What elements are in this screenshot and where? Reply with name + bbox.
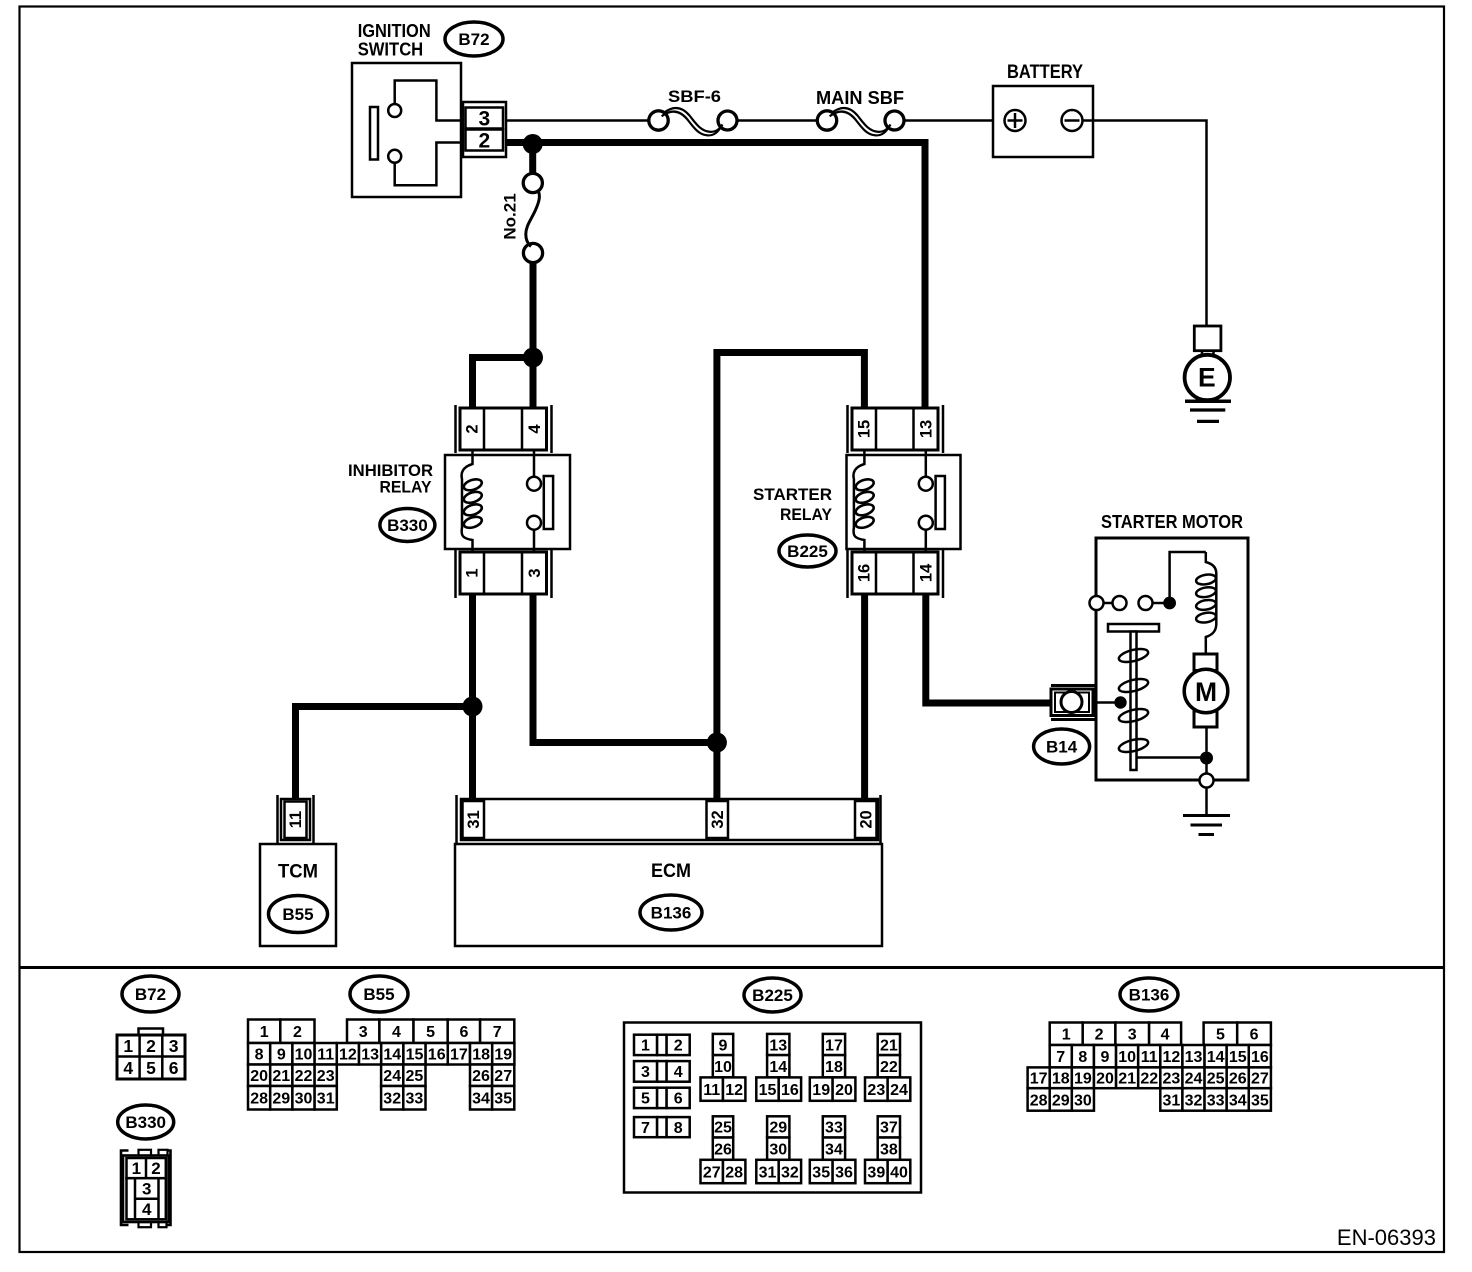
svg-text:1: 1	[132, 1159, 141, 1178]
svg-text:12: 12	[725, 1082, 743, 1099]
svg-text:6: 6	[459, 1024, 468, 1041]
svg-text:26: 26	[714, 1141, 732, 1158]
svg-text:35: 35	[1251, 1092, 1269, 1109]
svg-text:14: 14	[383, 1047, 401, 1064]
svg-text:6: 6	[169, 1058, 179, 1078]
svg-text:5: 5	[641, 1091, 650, 1108]
svg-text:20: 20	[1096, 1071, 1114, 1088]
svg-text:B72: B72	[135, 985, 166, 1004]
svg-text:16: 16	[1251, 1049, 1269, 1066]
svg-text:13: 13	[769, 1037, 787, 1054]
svg-text:15: 15	[406, 1047, 424, 1064]
svg-text:B72: B72	[458, 30, 489, 49]
svg-text:21: 21	[880, 1037, 898, 1054]
svg-text:RELAY: RELAY	[380, 479, 432, 497]
svg-text:STARTER: STARTER	[753, 485, 832, 504]
svg-text:1: 1	[1062, 1027, 1071, 1044]
svg-text:4: 4	[1161, 1027, 1170, 1044]
svg-text:2: 2	[293, 1024, 302, 1041]
svg-text:34: 34	[472, 1091, 490, 1108]
svg-text:30: 30	[1074, 1092, 1092, 1109]
svg-text:2: 2	[146, 1036, 156, 1056]
svg-text:3: 3	[478, 108, 490, 131]
svg-text:38: 38	[880, 1141, 898, 1158]
svg-text:B136: B136	[1129, 986, 1170, 1005]
svg-text:RELAY: RELAY	[780, 506, 832, 524]
svg-text:E: E	[1198, 363, 1216, 393]
svg-text:31: 31	[759, 1164, 777, 1181]
svg-text:12: 12	[339, 1047, 357, 1064]
svg-text:19: 19	[494, 1047, 512, 1064]
svg-text:29: 29	[1052, 1092, 1070, 1109]
svg-text:20: 20	[250, 1068, 268, 1085]
svg-text:3: 3	[526, 568, 544, 577]
svg-text:6: 6	[1250, 1027, 1259, 1044]
svg-text:27: 27	[494, 1068, 512, 1085]
svg-text:B14: B14	[1046, 738, 1078, 757]
svg-text:34: 34	[1229, 1092, 1247, 1109]
svg-text:No.21: No.21	[501, 193, 520, 239]
svg-text:23: 23	[317, 1068, 335, 1085]
svg-text:11: 11	[1141, 1049, 1158, 1066]
svg-text:14: 14	[1207, 1049, 1225, 1066]
svg-text:5: 5	[426, 1024, 435, 1041]
svg-text:MAIN SBF: MAIN SBF	[816, 88, 904, 108]
svg-text:5: 5	[1216, 1027, 1225, 1044]
svg-text:B330: B330	[125, 1113, 166, 1132]
svg-text:40: 40	[890, 1164, 908, 1181]
svg-text:B55: B55	[363, 985, 394, 1004]
svg-text:5: 5	[146, 1058, 156, 1078]
svg-text:25: 25	[714, 1120, 732, 1137]
svg-text:20: 20	[857, 810, 875, 828]
svg-text:35: 35	[812, 1164, 830, 1181]
svg-text:2: 2	[464, 424, 482, 433]
svg-text:27: 27	[1251, 1071, 1269, 1088]
svg-text:34: 34	[825, 1141, 843, 1158]
svg-text:B225: B225	[752, 986, 793, 1005]
svg-text:7: 7	[493, 1024, 502, 1041]
svg-text:INHIBITOR: INHIBITOR	[348, 462, 433, 480]
svg-text:11: 11	[317, 1047, 334, 1064]
svg-text:8: 8	[674, 1120, 683, 1137]
svg-text:11: 11	[287, 811, 305, 828]
svg-text:33: 33	[1207, 1092, 1225, 1109]
svg-text:25: 25	[1207, 1071, 1225, 1088]
svg-text:4: 4	[142, 1200, 152, 1219]
svg-text:4: 4	[526, 424, 544, 434]
svg-text:2: 2	[674, 1038, 683, 1055]
svg-text:13: 13	[1185, 1049, 1203, 1066]
svg-text:39: 39	[867, 1164, 885, 1181]
svg-text:26: 26	[1229, 1071, 1247, 1088]
svg-text:1: 1	[641, 1038, 650, 1055]
svg-text:B136: B136	[651, 904, 692, 923]
svg-text:30: 30	[295, 1091, 313, 1108]
svg-text:TCM: TCM	[278, 862, 318, 883]
svg-text:4: 4	[392, 1024, 401, 1041]
svg-text:9: 9	[719, 1037, 728, 1054]
svg-text:33: 33	[406, 1091, 424, 1108]
svg-text:17: 17	[450, 1047, 468, 1064]
svg-text:18: 18	[1052, 1071, 1070, 1088]
svg-text:29: 29	[769, 1120, 787, 1137]
svg-text:28: 28	[250, 1091, 268, 1108]
svg-text:1: 1	[123, 1036, 133, 1056]
svg-text:22: 22	[880, 1059, 898, 1076]
svg-text:9: 9	[1101, 1049, 1110, 1066]
svg-text:23: 23	[867, 1082, 885, 1099]
svg-text:IGNITION: IGNITION	[358, 21, 431, 41]
svg-text:1: 1	[464, 568, 482, 577]
svg-text:22: 22	[295, 1068, 313, 1085]
svg-text:11: 11	[703, 1082, 720, 1099]
svg-text:B330: B330	[387, 516, 428, 535]
svg-text:26: 26	[472, 1068, 490, 1085]
svg-text:37: 37	[880, 1120, 898, 1137]
svg-text:4: 4	[123, 1058, 133, 1078]
svg-text:3: 3	[169, 1036, 179, 1056]
svg-text:23: 23	[1162, 1071, 1180, 1088]
svg-text:16: 16	[781, 1082, 799, 1099]
svg-text:7: 7	[641, 1120, 650, 1137]
svg-text:21: 21	[1118, 1071, 1136, 1088]
svg-text:15: 15	[759, 1082, 777, 1099]
svg-text:15: 15	[856, 420, 874, 438]
svg-text:14: 14	[917, 563, 935, 582]
svg-text:19: 19	[812, 1082, 830, 1099]
svg-text:19: 19	[1074, 1071, 1092, 1088]
svg-text:32: 32	[781, 1164, 799, 1181]
svg-text:27: 27	[703, 1164, 721, 1181]
svg-text:SWITCH: SWITCH	[358, 40, 424, 60]
svg-text:13: 13	[361, 1047, 379, 1064]
svg-text:10: 10	[1118, 1049, 1136, 1066]
svg-text:16: 16	[856, 564, 874, 582]
svg-text:15: 15	[1229, 1049, 1247, 1066]
svg-text:31: 31	[465, 810, 483, 828]
svg-text:B55: B55	[282, 905, 313, 924]
svg-text:9: 9	[277, 1047, 286, 1064]
svg-text:31: 31	[317, 1091, 335, 1108]
svg-text:17: 17	[1030, 1071, 1048, 1088]
svg-text:3: 3	[142, 1180, 151, 1199]
svg-text:10: 10	[295, 1047, 313, 1064]
svg-text:32: 32	[383, 1091, 401, 1108]
svg-text:1: 1	[260, 1024, 269, 1041]
svg-text:SBF-6: SBF-6	[668, 88, 721, 106]
svg-text:3: 3	[641, 1064, 650, 1081]
svg-text:4: 4	[674, 1064, 683, 1081]
svg-text:18: 18	[825, 1059, 843, 1076]
svg-text:2: 2	[1095, 1027, 1104, 1044]
svg-text:20: 20	[835, 1082, 853, 1099]
svg-text:7: 7	[1056, 1049, 1065, 1066]
svg-text:32: 32	[709, 810, 727, 828]
svg-text:12: 12	[1162, 1049, 1180, 1066]
svg-text:2: 2	[478, 130, 490, 153]
svg-text:10: 10	[714, 1059, 732, 1076]
svg-text:B225: B225	[787, 542, 828, 561]
svg-text:24: 24	[890, 1082, 908, 1099]
svg-text:21: 21	[272, 1068, 290, 1085]
svg-text:30: 30	[769, 1141, 787, 1158]
svg-text:3: 3	[1128, 1027, 1137, 1044]
svg-text:28: 28	[725, 1164, 743, 1181]
svg-text:ECM: ECM	[651, 861, 691, 882]
svg-text:16: 16	[428, 1047, 446, 1064]
svg-text:17: 17	[825, 1037, 843, 1054]
svg-text:3: 3	[359, 1024, 368, 1041]
svg-text:32: 32	[1185, 1092, 1203, 1109]
svg-text:M: M	[1195, 677, 1217, 707]
svg-text:22: 22	[1140, 1071, 1158, 1088]
svg-text:33: 33	[825, 1120, 843, 1137]
svg-text:24: 24	[1185, 1071, 1203, 1088]
svg-text:35: 35	[494, 1091, 512, 1108]
svg-text:36: 36	[835, 1164, 853, 1181]
svg-text:25: 25	[406, 1068, 424, 1085]
svg-text:13: 13	[917, 420, 935, 438]
svg-text:6: 6	[674, 1091, 683, 1108]
svg-text:31: 31	[1162, 1092, 1180, 1109]
svg-text:14: 14	[769, 1059, 787, 1076]
svg-text:EN-06393: EN-06393	[1337, 1225, 1436, 1250]
svg-text:BATTERY: BATTERY	[1007, 62, 1083, 83]
svg-text:29: 29	[272, 1091, 290, 1108]
svg-text:2: 2	[151, 1159, 160, 1178]
svg-text:8: 8	[1078, 1049, 1087, 1066]
svg-text:18: 18	[472, 1047, 490, 1064]
svg-text:8: 8	[255, 1047, 264, 1064]
svg-text:24: 24	[383, 1068, 401, 1085]
svg-text:28: 28	[1030, 1092, 1048, 1109]
svg-text:STARTER MOTOR: STARTER MOTOR	[1101, 512, 1243, 532]
